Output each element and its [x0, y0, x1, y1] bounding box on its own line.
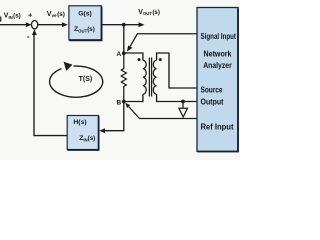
node B dot	[122, 100, 126, 104]
svg-text:Ref Input: Ref Input	[201, 123, 234, 132]
wire H output to summing junction	[34, 35, 67, 136]
left edge crop artifact	[0, 17, 1, 22]
wire primary bottom to B	[124, 94, 143, 101]
svg-text:+: +	[28, 10, 32, 19]
block G(s)/ZOUT(s) U1	[69, 6, 102, 41]
svg-text:-: -	[27, 32, 30, 41]
resistor R injection between A and B	[121, 53, 126, 101]
transformer core	[148, 58, 150, 97]
svg-text:Output: Output	[201, 98, 224, 107]
wire A to transformer primary top	[124, 53, 143, 60]
svg-text:Network: Network	[204, 50, 232, 59]
leader wire Ref Input to B	[129, 107, 197, 119]
wire secondary top to Source input	[157, 53, 197, 88]
primary polarity dot	[138, 58, 141, 61]
arrowhead into H block	[99, 128, 105, 133]
arrowhead output	[139, 22, 145, 27]
svg-text:T(S): T(S)	[79, 76, 93, 83]
svg-text:ZIN(s): ZIN(s)	[79, 135, 95, 143]
wire B down to feedback	[104, 102, 124, 131]
wire secondary bottom to Output	[157, 94, 197, 101]
loop arrowhead	[64, 62, 73, 71]
loop T(S) arrow	[50, 66, 103, 97]
svg-text:Analyzer: Analyzer	[203, 61, 232, 70]
wire input	[0, 24, 29, 26]
transformer T1 primary winding	[143, 60, 146, 94]
arrowhead at B	[125, 103, 130, 108]
secondary polarity dot	[159, 58, 162, 61]
leader wire Signal Input to A	[130, 34, 197, 47]
wire junction to G	[38, 24, 64, 26]
transformer T1 secondary winding	[153, 60, 156, 94]
svg-text:VIN(s): VIN(s)	[4, 13, 21, 20]
junction dot on output wire	[181, 100, 185, 104]
junction dot VOUT node	[122, 23, 126, 27]
svg-text:B: B	[116, 100, 121, 107]
svg-text:A: A	[116, 51, 121, 58]
block H(s)/ZIN(s) U2	[67, 116, 98, 151]
arrowhead into summing junction bottom	[32, 29, 37, 35]
network analyzer box	[197, 8, 238, 152]
svg-text:H(s): H(s)	[73, 119, 86, 126]
ground	[182, 102, 184, 108]
arrowhead at A	[127, 45, 133, 51]
summing junction	[31, 21, 37, 29]
svg-text:G(s): G(s)	[78, 10, 92, 17]
wire VOUT node down to A	[123, 25, 125, 54]
arrowhead into G block	[62, 22, 68, 27]
wire G to output	[102, 24, 140, 26]
svg-text:Signal Input: Signal Input	[201, 32, 237, 41]
svg-text:Source: Source	[201, 85, 223, 94]
arrowhead into summing junction	[26, 22, 32, 27]
node A dot	[122, 51, 126, 55]
